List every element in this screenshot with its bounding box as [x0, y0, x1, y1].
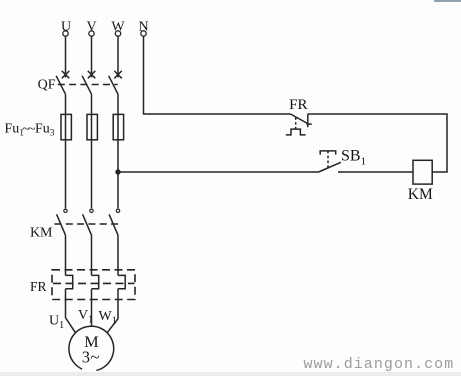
fuse FU2 — [87, 114, 97, 139]
wire W terminal to QF — [117, 36, 119, 77]
top-right edge artifact bar — [434, 0, 461, 2]
breaker QF linkage dashed — [58, 84, 118, 86]
button SB1 blade — [319, 162, 341, 172]
button SB1 stem dashed — [327, 151, 329, 154]
terminal N — [141, 31, 146, 36]
svg-text:www.diangon.com: www.diangon.com — [304, 356, 455, 373]
svg-text:KM: KM — [408, 186, 433, 203]
relay FR heater element 2 — [92, 275, 99, 288]
fuse FU1 — [61, 114, 71, 139]
relay FR contact blade end tick — [306, 123, 311, 125]
svg-text:N: N — [138, 20, 148, 35]
terminal U — [63, 31, 68, 36]
relay FR dashed middle line — [53, 282, 135, 284]
terminal V — [89, 31, 94, 36]
contactor KM pole 2 blade — [83, 214, 92, 235]
contactor KM pole 3 blade — [109, 214, 118, 235]
svg-text:KM: KM — [30, 226, 53, 241]
breaker QF pole 3 cross — [114, 71, 122, 78]
breaker QF pole 1 cross — [62, 71, 70, 78]
wire U1 heater to motor — [66, 289, 76, 333]
relay FR dashed box — [52, 270, 135, 300]
wire V1 heater to motor — [91, 289, 93, 327]
terminal W — [115, 31, 120, 36]
wire W1 heater to motor — [107, 289, 118, 333]
contactor KM linkage dashed — [55, 223, 119, 225]
button SB1 cap — [320, 151, 336, 155]
svg-text:QF: QF — [38, 78, 56, 93]
svg-text:3~: 3~ — [82, 347, 100, 366]
wire V KM contact to FR heater — [91, 235, 93, 275]
motor M circle — [69, 326, 114, 370]
wire U KM contact to FR heater — [65, 235, 67, 275]
svg-text:W: W — [111, 20, 125, 35]
wire FR contact to KM coil right side — [308, 114, 447, 172]
relay FR contact actuator dashed — [295, 117, 297, 129]
bottom grey band — [0, 372, 461, 376]
junction node on W phase — [115, 169, 120, 174]
wire N terminal to FR contact — [144, 36, 291, 114]
breaker QF pole 2 cross — [88, 71, 96, 78]
contactor KM pole 3 circle — [116, 209, 119, 212]
breaker QF pole 2 blade — [82, 76, 91, 94]
contactor KM pole 1 circle — [64, 209, 67, 212]
relay FR heater element 1 — [66, 275, 73, 288]
breaker QF pole 1 blade — [56, 76, 65, 94]
wire V QF to KM contact — [91, 94, 93, 208]
contactor KM pole 1 blade — [57, 214, 66, 235]
wire SB1 to KM coil — [338, 171, 413, 173]
wire junction to SB1 — [118, 171, 319, 173]
relay FR contact blade — [291, 114, 308, 124]
wire V terminal to QF — [91, 36, 93, 77]
wire U terminal to QF — [65, 36, 67, 77]
relay FR contact thermal symbol — [286, 129, 306, 135]
svg-text:FR: FR — [30, 279, 47, 294]
svg-text:FR: FR — [289, 97, 307, 113]
svg-text:V: V — [86, 20, 96, 35]
coil KM — [413, 160, 432, 184]
fuse FU3 — [113, 114, 123, 139]
wire U QF to KM contact — [65, 94, 67, 208]
wire W QF to KM contact — [117, 94, 119, 208]
wire W KM contact to FR heater — [117, 235, 119, 275]
relay FR heater element 3 — [118, 275, 125, 288]
breaker QF pole 3 blade — [109, 76, 118, 94]
contactor KM pole 2 circle — [90, 209, 93, 212]
relay FR contact stop — [307, 114, 309, 127]
